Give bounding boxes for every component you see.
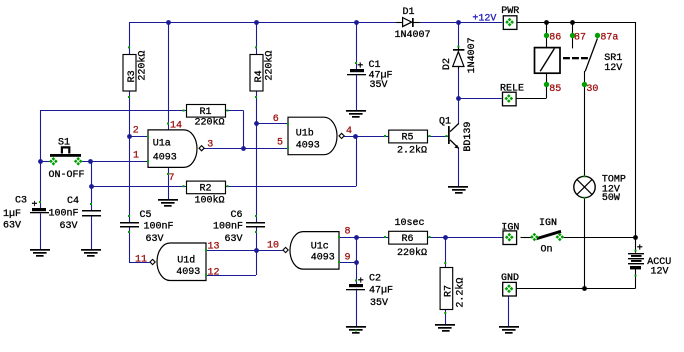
svg-text:100kΩ: 100kΩ bbox=[195, 194, 225, 206]
svg-text:PWR: PWR bbox=[501, 6, 519, 17]
svg-text:ON-OFF: ON-OFF bbox=[49, 170, 85, 181]
svg-text:220kΩ: 220kΩ bbox=[397, 247, 427, 259]
svg-text:220kΩ: 220kΩ bbox=[136, 51, 148, 81]
svg-text:C5: C5 bbox=[140, 210, 152, 221]
svg-text:86: 86 bbox=[549, 33, 561, 44]
svg-text:9: 9 bbox=[345, 252, 351, 263]
svg-text:D1: D1 bbox=[403, 7, 415, 18]
svg-text:4093: 4093 bbox=[176, 267, 200, 278]
svg-text:+: + bbox=[357, 62, 363, 73]
svg-text:C2: C2 bbox=[369, 274, 381, 285]
svg-text:1µF: 1µF bbox=[3, 209, 21, 220]
svg-text:30: 30 bbox=[586, 84, 598, 95]
svg-text:13: 13 bbox=[208, 242, 220, 253]
svg-text:85: 85 bbox=[549, 84, 561, 95]
svg-text:14: 14 bbox=[170, 121, 182, 132]
svg-text:87a: 87a bbox=[600, 33, 618, 44]
svg-text:2.2kΩ: 2.2kΩ bbox=[397, 145, 427, 157]
svg-text:BD139: BD139 bbox=[463, 122, 474, 152]
svg-text:IGN: IGN bbox=[501, 222, 519, 233]
svg-text:12V: 12V bbox=[604, 63, 622, 74]
svg-text:+: + bbox=[637, 243, 643, 254]
svg-text:5: 5 bbox=[277, 138, 283, 149]
svg-text:U1b: U1b bbox=[296, 128, 314, 140]
svg-text:50W: 50W bbox=[602, 193, 620, 204]
svg-text:63V: 63V bbox=[225, 234, 243, 245]
svg-text:U1c: U1c bbox=[311, 242, 329, 253]
svg-text:63V: 63V bbox=[3, 220, 21, 231]
svg-text:47µF: 47µF bbox=[369, 286, 393, 297]
svg-text:4: 4 bbox=[346, 126, 352, 137]
svg-text:4093: 4093 bbox=[153, 152, 177, 163]
svg-text:4093: 4093 bbox=[311, 252, 335, 263]
svg-text:4093: 4093 bbox=[296, 140, 320, 151]
svg-text:10: 10 bbox=[267, 241, 279, 252]
svg-text:100nF: 100nF bbox=[144, 222, 174, 233]
svg-text:7: 7 bbox=[169, 173, 175, 184]
svg-text:R2: R2 bbox=[199, 184, 211, 195]
svg-text:220kΩ: 220kΩ bbox=[263, 51, 275, 81]
svg-text:10sec: 10sec bbox=[395, 218, 425, 229]
svg-text:R7: R7 bbox=[443, 285, 454, 297]
svg-text:U1a: U1a bbox=[153, 139, 171, 150]
svg-text:63V: 63V bbox=[60, 221, 78, 232]
svg-text:11: 11 bbox=[135, 254, 147, 265]
svg-text:R6: R6 bbox=[401, 234, 413, 245]
svg-text:C1: C1 bbox=[369, 60, 381, 71]
svg-text:RELE: RELE bbox=[500, 83, 524, 94]
svg-text:C3: C3 bbox=[15, 195, 27, 206]
svg-text:220kΩ: 220kΩ bbox=[195, 117, 225, 129]
svg-text:100nF: 100nF bbox=[49, 209, 79, 220]
svg-text:R4: R4 bbox=[254, 70, 265, 82]
svg-text:C6: C6 bbox=[231, 210, 243, 221]
svg-text:IGN: IGN bbox=[539, 218, 557, 229]
svg-text:35V: 35V bbox=[370, 80, 388, 91]
svg-text:C4: C4 bbox=[67, 196, 79, 207]
svg-text:R3: R3 bbox=[127, 70, 138, 82]
svg-text:6: 6 bbox=[273, 114, 279, 125]
svg-text:GND: GND bbox=[501, 273, 519, 284]
svg-text:8: 8 bbox=[345, 226, 351, 237]
svg-text:100nF: 100nF bbox=[213, 222, 243, 233]
svg-text:+: + bbox=[358, 277, 364, 288]
svg-text:2.2kΩ: 2.2kΩ bbox=[454, 278, 466, 308]
svg-text:1N4007: 1N4007 bbox=[467, 37, 478, 73]
svg-text:R5: R5 bbox=[401, 133, 413, 144]
svg-text:2: 2 bbox=[133, 125, 139, 136]
svg-text:3: 3 bbox=[207, 140, 213, 151]
svg-text:On: On bbox=[541, 244, 553, 255]
svg-text:63V: 63V bbox=[146, 234, 164, 245]
svg-text:12: 12 bbox=[208, 268, 220, 279]
svg-text:D2: D2 bbox=[442, 58, 453, 70]
svg-text:12V: 12V bbox=[651, 267, 669, 278]
svg-text:35V: 35V bbox=[370, 298, 388, 309]
svg-text:+12V: +12V bbox=[472, 14, 496, 25]
svg-text:1N4007: 1N4007 bbox=[395, 30, 431, 41]
svg-text:+: + bbox=[32, 200, 38, 211]
svg-text:U1d: U1d bbox=[177, 254, 195, 266]
svg-text:1: 1 bbox=[133, 150, 139, 161]
svg-text:S1: S1 bbox=[58, 137, 70, 148]
svg-text:Q1: Q1 bbox=[439, 117, 451, 128]
svg-text:87: 87 bbox=[574, 33, 586, 44]
svg-text:R1: R1 bbox=[199, 107, 211, 118]
